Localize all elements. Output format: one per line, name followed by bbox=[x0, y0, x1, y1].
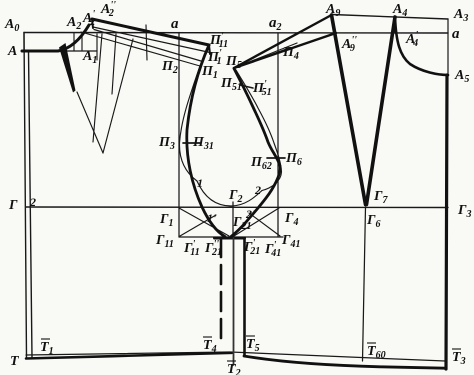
wire: front neckline А4-А5 (thick) bbox=[395, 17, 448, 75]
wire: front shoulder А9-П5 (thick) bbox=[234, 15, 332, 68]
wire: short vertical on shoulder bbox=[146, 25, 147, 60]
svg-text:А''2: А''2 bbox=[100, 0, 116, 19]
node Т4 overline bbox=[203, 336, 212, 338]
wire: front shoulder А9''-П5 (thick) bbox=[234, 33, 336, 68]
wire: back armhole construction curve (thin) bbox=[179, 66, 200, 181]
wire: centre vertical Г2-Т2 bbox=[232, 202, 234, 237]
overlines on Т labels bbox=[41, 336, 461, 361]
node Т60 overline bbox=[367, 342, 376, 344]
wire: back hem Т-Т4 (thick) bbox=[26, 353, 232, 359]
wire: back width vertical а1 bbox=[178, 33, 180, 238]
wire: П5-П4 upper line bbox=[234, 43, 297, 68]
wire: short construction line near А1 bbox=[112, 34, 116, 94]
wire: waist line Т bbox=[26, 352, 445, 361]
svg-text:А''9: А''9 bbox=[341, 35, 357, 54]
wire: right edge thin top А3-А5 bbox=[447, 19, 449, 75]
wire: vertical Г6-Т60 bbox=[363, 207, 366, 361]
wire: centre seam line Г21-Т2 bbox=[233, 238, 235, 365]
wire: front hem Т5-Т3 (thick) bbox=[244, 356, 445, 368]
wire: line Г11-Г41 bbox=[179, 236, 283, 238]
node П62: tick mark bbox=[267, 157, 285, 159]
wire: bisector at Г41 (point 2') bbox=[249, 213, 280, 236]
svg-text:а: а bbox=[171, 16, 179, 32]
node Т3 overline bbox=[452, 348, 461, 350]
svg-text:2: 2 bbox=[29, 195, 36, 209]
wire: back neckline А-А2 (thick) bbox=[22, 25, 89, 51]
wire: bisector at Г11 (point 1') bbox=[180, 215, 216, 236]
svg-text:Г: Г bbox=[8, 198, 18, 213]
wire: back dart leg from wedge tip bbox=[77, 92, 103, 153]
wire: shoulder construction line А2-П1 bbox=[81, 32, 200, 66]
wire: back dart leg right bbox=[103, 39, 133, 153]
svg-text:А: А bbox=[7, 44, 17, 59]
node П31: tick mark bbox=[183, 142, 200, 144]
wire: armhole bottom flat segment bbox=[215, 237, 245, 240]
wire: back shoulder dart (filled wedge) bbox=[59, 43, 76, 93]
wire: front armhole construction curve (thin) bbox=[236, 70, 282, 191]
wire: П5-П4 lower line bbox=[234, 48, 289, 68]
svg-text:2': 2' bbox=[245, 207, 256, 221]
wire: top horizontal line a (А0 to right edge) bbox=[24, 32, 448, 35]
wire: armhole base circle arc through 1 and 2 bbox=[197, 181, 262, 206]
wire: back shoulder seam А2''-П11' (thick) bbox=[92, 19, 209, 45]
svg-text:Т: Т bbox=[10, 354, 20, 369]
svg-text:2: 2 bbox=[254, 183, 261, 197]
wire: back armhole curve (thick) bbox=[187, 45, 225, 237]
wire: shoulder strip bottom line 1 bbox=[93, 27, 210, 53]
wire: front side seam Г41-Т5 bbox=[243, 238, 246, 356]
wire: right edge thick А5-Т3 bbox=[446, 75, 447, 369]
node Т5 overline bbox=[246, 335, 255, 337]
wire: А4 short vertical bbox=[394, 17, 396, 33]
node А0: neck rectangle left side bbox=[23, 33, 25, 52]
wire: bust dart right leg А4-Г7 bbox=[367, 17, 396, 205]
wire: back dart construction leg left bbox=[93, 34, 102, 142]
wire: dashed side line Т4 bbox=[220, 238, 223, 346]
node А2: shoulder start connector bbox=[92, 19, 93, 28]
wire: chest line Г bbox=[26, 206, 448, 209]
wire: neck rectangle bottom bbox=[24, 50, 97, 52]
wire: diagonal Г4 to bottom of armhole bbox=[234, 208, 279, 236]
wire: left vertical 2 (А-Т1) bbox=[29, 51, 33, 357]
wire: neck rectangle right vertical bbox=[81, 33, 83, 51]
wire: diagonal Г1 to bottom of armhole bbox=[179, 208, 229, 236]
svg-text:1': 1' bbox=[207, 211, 217, 225]
wire: left vertical 1 (А0-Т) bbox=[24, 33, 27, 359]
node П51: tick mark bbox=[240, 85, 253, 88]
wire: front armhole curve (thick) bbox=[231, 69, 280, 237]
wire: top line А9-А3 bbox=[332, 15, 448, 20]
svg-text:а: а bbox=[452, 26, 460, 42]
wire: shoulder end connector П11'-П1' bbox=[209, 45, 210, 54]
wire: А1 vertical bbox=[96, 34, 98, 60]
wire: front width vertical а2 bbox=[277, 33, 279, 237]
wire: shoulder strip bottom line 2 bbox=[94, 30, 201, 62]
wire: neck rectangle inner vertical bbox=[73, 33, 75, 51]
svg-text:А'4: А'4 bbox=[405, 30, 418, 49]
wire: bust dart left leg А9''-Г7 bbox=[332, 15, 366, 205]
svg-text:А'2: А'2 bbox=[82, 9, 95, 28]
node Т1 overline bbox=[41, 338, 50, 340]
node Т2 overline bbox=[227, 360, 236, 362]
svg-text:1: 1 bbox=[197, 176, 203, 190]
